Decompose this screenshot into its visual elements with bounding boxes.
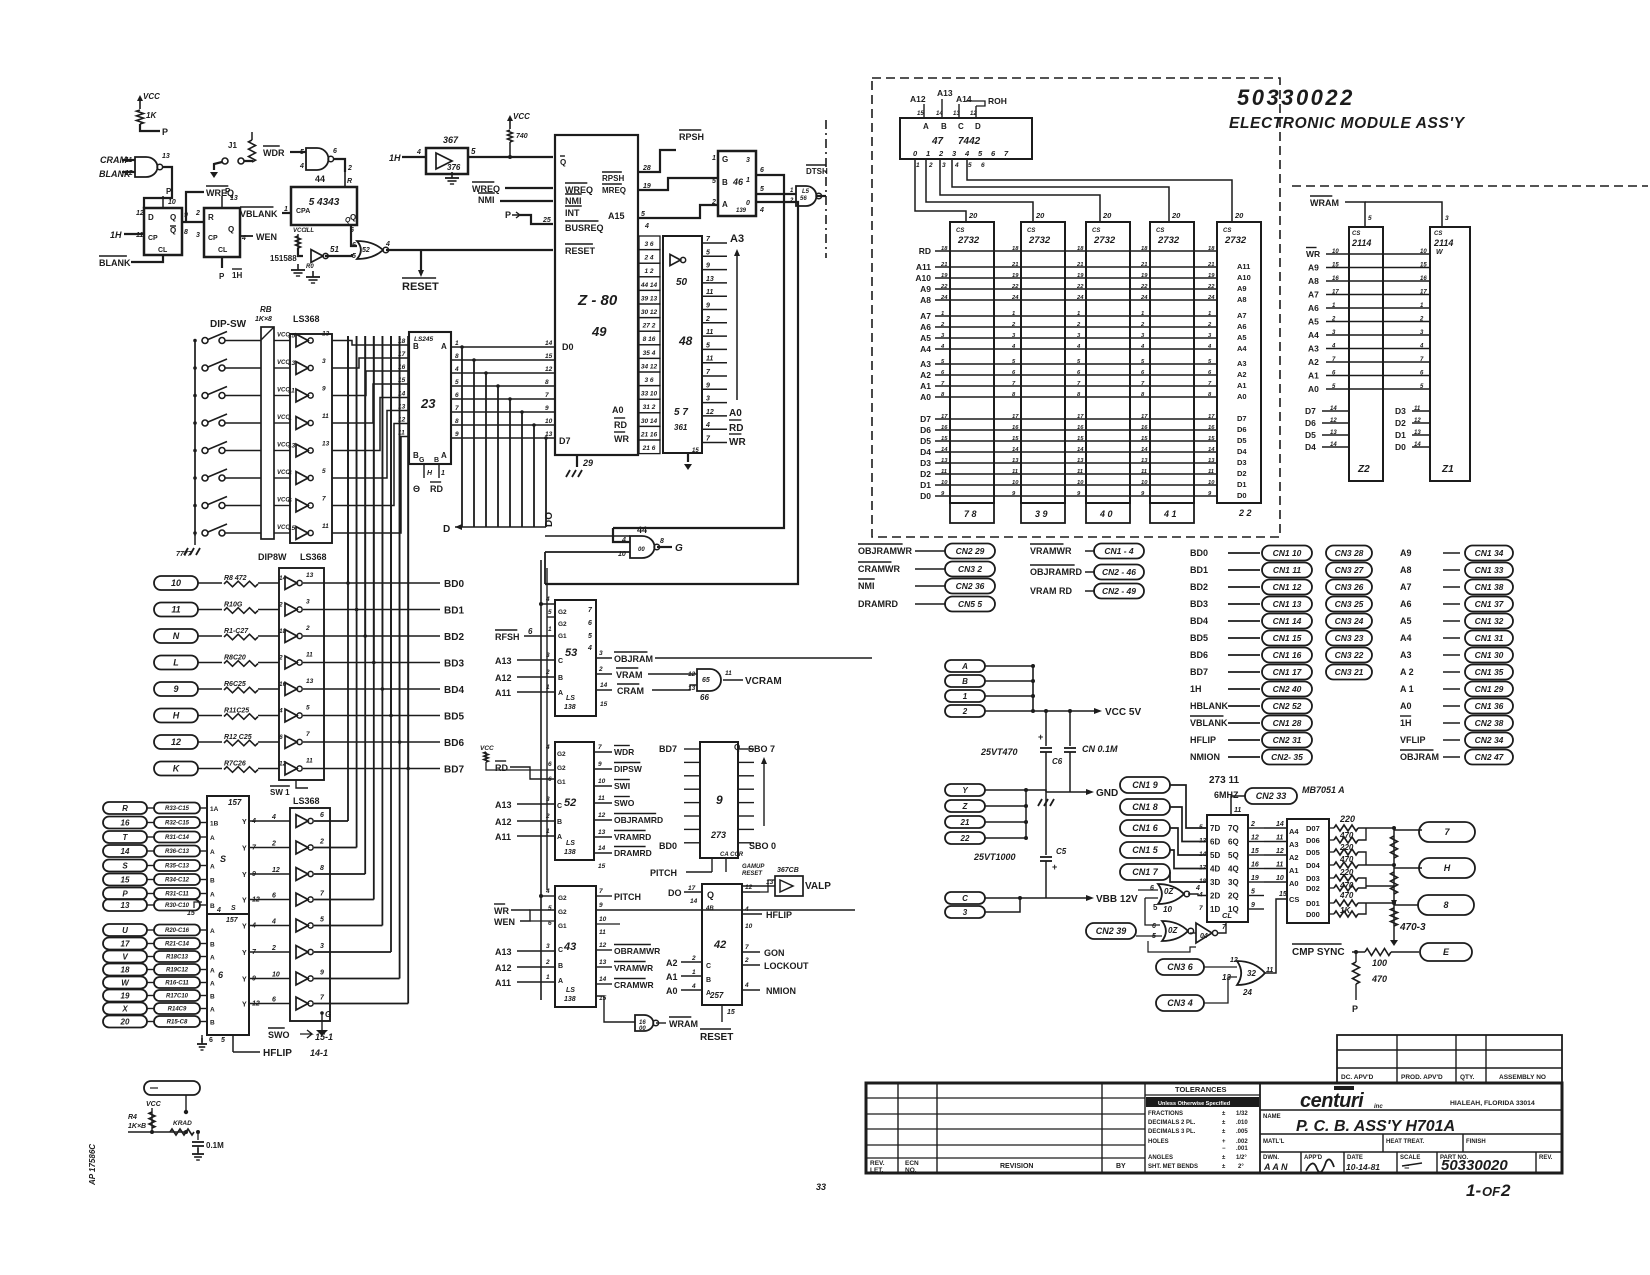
svg-text:CS: CS — [956, 228, 964, 234]
svg-text:11: 11 — [171, 605, 180, 615]
svg-text:VCC 5V: VCC 5V — [1105, 707, 1141, 718]
svg-text:1H: 1H — [1400, 718, 1412, 728]
inverter dip buf 2 — [296, 362, 308, 375]
svg-text:C: C — [558, 947, 563, 954]
wire objram right — [655, 657, 872, 659]
pad Y — [945, 784, 985, 796]
pad Z — [945, 800, 985, 812]
svg-text:−: − — [1222, 1146, 1226, 1152]
titleblock matl row — [1260, 1133, 1562, 1135]
svg-text:CN3 24: CN3 24 — [1335, 616, 1364, 626]
label VCRAM — [723, 679, 743, 681]
svg-text:2732: 2732 — [1093, 235, 1116, 246]
wire end stub — [184, 1130, 188, 1134]
svg-text:CN1 31: CN1 31 — [1475, 633, 1504, 643]
svg-text:12: 12 — [1276, 848, 1284, 855]
svg-text:138: 138 — [564, 849, 576, 856]
svg-text:CP: CP — [148, 235, 158, 242]
pad 22 — [945, 832, 985, 844]
svg-text:B: B — [210, 903, 215, 910]
svg-text:4: 4 — [287, 470, 292, 477]
svg-text:A1: A1 — [1237, 381, 1247, 390]
flip-flop U1 — [144, 208, 182, 255]
svg-text:VBB 12V: VBB 12V — [1096, 894, 1138, 905]
wire to BD4 — [303, 688, 440, 690]
svg-text:G1: G1 — [558, 633, 567, 640]
svg-text:1A: 1A — [210, 806, 219, 813]
svg-text:RESET: RESET — [700, 1032, 733, 1043]
svg-text:4: 4 — [454, 366, 459, 373]
svg-text:B: B — [962, 677, 968, 686]
wire junction x545 — [544, 552, 546, 584]
svg-text:D2: D2 — [920, 469, 931, 479]
svg-text:17: 17 — [1012, 414, 1019, 420]
svg-text:A7: A7 — [1400, 582, 1412, 592]
resistor R33-C15 — [154, 803, 200, 814]
wire — [314, 951, 391, 953]
wire 52 outputs with labels — [594, 751, 612, 753]
svg-text:G: G — [675, 543, 683, 554]
svg-text:16: 16 — [1141, 425, 1148, 431]
svg-text:1: 1 — [1208, 311, 1211, 317]
svg-text:5: 5 — [1368, 215, 1372, 222]
svg-text:BD6: BD6 — [444, 738, 464, 749]
svg-text:VRAMRD: VRAMRD — [614, 832, 651, 842]
svg-text:HFLIP: HFLIP — [766, 910, 792, 920]
wire sbo arrow — [763, 760, 765, 826]
svg-text:257: 257 — [709, 991, 724, 1000]
svg-text:25: 25 — [542, 217, 551, 224]
wire z80 to pincol — [638, 242, 639, 244]
svg-text:K: K — [173, 764, 181, 774]
svg-text:9: 9 — [322, 386, 326, 393]
svg-text:.001: .001 — [1236, 1146, 1248, 1152]
inverter BD buf 1 — [285, 577, 297, 590]
svg-text:3: 3 — [320, 943, 324, 950]
svg-text:CN3 23: CN3 23 — [1335, 633, 1364, 643]
inverter dip buf 5 — [296, 444, 308, 457]
svg-text:4: 4 — [545, 744, 550, 751]
wire 02a out — [1188, 894, 1207, 896]
svg-text:4: 4 — [385, 241, 390, 248]
svg-text:12: 12 — [279, 761, 287, 768]
svg-text:7: 7 — [598, 744, 602, 751]
svg-text:14: 14 — [121, 847, 130, 856]
svg-text:A15: A15 — [608, 211, 625, 221]
svg-text:9: 9 — [455, 431, 459, 438]
svg-text:VCC: VCC — [480, 745, 494, 752]
svg-text:3Q: 3Q — [1228, 878, 1239, 887]
svg-text:4: 4 — [644, 223, 649, 230]
svg-text:A12: A12 — [495, 673, 512, 683]
svg-text:D7: D7 — [920, 414, 931, 424]
svg-text:7442: 7442 — [958, 136, 981, 147]
svg-text:7: 7 — [545, 392, 549, 399]
svg-text:A0: A0 — [729, 408, 742, 419]
svg-text:Y: Y — [242, 872, 247, 879]
flip-flop U2 — [204, 208, 240, 257]
wire — [314, 978, 400, 980]
pad 1 — [945, 690, 985, 702]
svg-text:1: 1 — [441, 470, 445, 477]
svg-text:A: A — [722, 200, 728, 209]
svg-text:LS: LS — [566, 840, 575, 847]
ic U23 — [409, 332, 451, 464]
svg-text:LS368: LS368 — [300, 552, 327, 562]
connector pad 12 — [154, 735, 198, 749]
svg-text:CN2 38: CN2 38 — [1475, 718, 1504, 728]
svg-text:9: 9 — [173, 684, 178, 694]
svg-text:RD: RD — [495, 763, 508, 773]
svg-text:17: 17 — [941, 414, 948, 420]
wire 273 input stubs — [684, 748, 700, 750]
svg-text:12: 12 — [545, 366, 553, 373]
svg-text:HFLIP: HFLIP — [1190, 735, 1216, 745]
svg-text:4: 4 — [1419, 344, 1424, 350]
svg-text:A1: A1 — [1289, 866, 1299, 875]
resistor R34-C12 — [154, 874, 200, 885]
svg-text:RESET: RESET — [402, 281, 439, 293]
svg-text:3: 3 — [196, 232, 200, 239]
wire — [147, 1008, 154, 1010]
svg-text:R32-C15: R32-C15 — [165, 821, 190, 827]
buffer bank U-dip LS368 — [290, 334, 332, 543]
svg-text:G1: G1 — [558, 923, 567, 930]
svg-text:ILL: ILL — [305, 228, 314, 234]
flip-flop U2 preset — [221, 196, 223, 208]
svg-text:CN2- 35: CN2- 35 — [1271, 752, 1303, 762]
svg-text:8: 8 — [455, 353, 459, 360]
wire reg outputs — [1248, 827, 1264, 829]
svg-text:GND: GND — [1096, 788, 1118, 799]
svg-text:2°: 2° — [1238, 1164, 1244, 1170]
svg-text:A6: A6 — [1400, 599, 1412, 609]
eprom 2732 #3 — [1086, 222, 1130, 503]
svg-text:PITCH: PITCH — [614, 892, 641, 902]
wire 32 out — [1265, 899, 1287, 973]
svg-text:4: 4 — [1331, 344, 1336, 350]
svg-text:20: 20 — [968, 211, 978, 220]
svg-text:Y: Y — [242, 1002, 247, 1009]
svg-text:7: 7 — [1199, 905, 1203, 912]
svg-text:15: 15 — [1141, 436, 1148, 442]
svg-text:A1: A1 — [920, 381, 931, 391]
ic U46 decoder — [718, 151, 756, 216]
switch SW5 — [193, 449, 197, 453]
svg-text:4: 4 — [299, 163, 304, 170]
wire vcc5 rail — [1032, 666, 1034, 711]
wire 42 bottom reset — [721, 1005, 723, 1022]
svg-text:8: 8 — [660, 538, 664, 545]
svg-text:1K×B: 1K×B — [128, 1123, 146, 1130]
svg-text:NMI: NMI — [478, 195, 495, 205]
capacitor CN 0.1M — [1069, 711, 1071, 746]
wire to BD1 — [303, 609, 440, 611]
svg-text:15: 15 — [288, 333, 296, 340]
svg-text:21 16: 21 16 — [640, 431, 658, 438]
svg-text:CN2 34: CN2 34 — [1475, 735, 1504, 745]
svg-text:BLANK: BLANK — [99, 169, 132, 179]
svg-text:CN1 17: CN1 17 — [1273, 667, 1303, 677]
svg-text:A12: A12 — [910, 94, 926, 104]
svg-text:A: A — [558, 690, 563, 697]
svg-text:34 12: 34 12 — [641, 363, 658, 370]
svg-text:14: 14 — [1141, 447, 1148, 453]
svg-text:15: 15 — [1279, 891, 1287, 898]
svg-text:A: A — [558, 978, 563, 985]
svg-text:A7: A7 — [1308, 290, 1319, 300]
svg-text:13: 13 — [599, 959, 607, 966]
svg-text:BD3: BD3 — [444, 659, 464, 670]
svg-text:1: 1 — [746, 177, 750, 184]
svg-text:11: 11 — [1077, 469, 1083, 475]
svg-text:20: 20 — [1234, 211, 1244, 220]
svg-text:14: 14 — [941, 447, 948, 453]
svg-text:22: 22 — [940, 284, 948, 290]
svg-text:6: 6 — [320, 812, 324, 819]
svg-text:A0: A0 — [612, 405, 624, 415]
svg-text:DRAMRD: DRAMRD — [614, 848, 652, 858]
wire 46 out pin3 feeder — [613, 175, 784, 528]
ic U9 273 register — [700, 742, 738, 858]
svg-text:15: 15 — [1208, 436, 1215, 442]
svg-text:39 13: 39 13 — [641, 295, 658, 302]
svg-text:7: 7 — [706, 369, 711, 376]
svg-text:B: B — [434, 457, 439, 464]
svg-text:A6: A6 — [1308, 303, 1319, 313]
svg-text:13: 13 — [1077, 458, 1084, 464]
svg-text:BD2: BD2 — [1190, 582, 1208, 592]
svg-text:G: G — [722, 155, 728, 164]
connector pad 17 — [103, 938, 147, 950]
svg-text:BD2: BD2 — [444, 632, 464, 643]
svg-text:R11C25: R11C25 — [224, 708, 249, 715]
svg-text:A3: A3 — [920, 359, 931, 369]
svg-text:7D: 7D — [1210, 824, 1220, 833]
svg-text:20: 20 — [1035, 211, 1045, 220]
svg-text:11: 11 — [1012, 469, 1018, 475]
svg-text:GAMUP: GAMUP — [742, 864, 765, 870]
eprom 2732 #2 — [1021, 222, 1065, 503]
svg-text:15: 15 — [288, 525, 296, 532]
svg-text:4: 4 — [587, 645, 592, 652]
svg-text:B: B — [210, 942, 215, 949]
svg-text:.010: .010 — [1236, 1120, 1248, 1126]
svg-text:16: 16 — [941, 425, 948, 431]
svg-text:367CB: 367CB — [777, 867, 799, 874]
svg-text:25VT1000: 25VT1000 — [973, 852, 1016, 862]
svg-text:2: 2 — [545, 669, 550, 676]
wire 54343 R pin — [344, 172, 346, 187]
wire 51 to 52 — [325, 254, 352, 256]
svg-text:H: H — [427, 470, 433, 477]
svg-text:NMI: NMI — [858, 581, 875, 591]
svg-text:±: ± — [1222, 1129, 1226, 1135]
svg-text:46: 46 — [732, 177, 744, 187]
svg-text:SBO 7: SBO 7 — [748, 744, 775, 754]
svg-text:30 12: 30 12 — [641, 309, 658, 316]
svg-text:151588: 151588 — [270, 254, 297, 263]
svg-text:21: 21 — [1011, 262, 1018, 268]
svg-text:43: 43 — [563, 941, 576, 953]
svg-text:138: 138 — [564, 704, 576, 711]
svg-text:A9: A9 — [1400, 548, 1412, 558]
svg-text:R0: R0 — [306, 264, 314, 270]
svg-text:CP: CP — [208, 235, 218, 242]
svg-text:VRAMWR: VRAMWR — [1030, 546, 1072, 556]
connector pad 14 — [103, 845, 147, 857]
pad H — [1394, 867, 1422, 869]
svg-text:WR: WR — [1306, 249, 1320, 259]
svg-text:17: 17 — [121, 939, 130, 948]
svg-text:LOCKOUT: LOCKOUT — [764, 961, 809, 971]
svg-text:138: 138 — [564, 996, 576, 1003]
svg-text:10: 10 — [745, 923, 753, 930]
svg-text:HFLIP: HFLIP — [263, 1048, 292, 1059]
svg-text:Q: Q — [228, 225, 234, 234]
svg-text:15: 15 — [600, 701, 608, 708]
label WRAM — [656, 1022, 666, 1024]
svg-text:12: 12 — [706, 409, 714, 416]
svg-text:1/2°: 1/2° — [1236, 1155, 1247, 1161]
wire y rail — [1025, 790, 1027, 838]
svg-text:A: A — [706, 990, 711, 997]
svg-text:19: 19 — [121, 991, 130, 1000]
prom U12 MB7051 — [1287, 819, 1329, 923]
pad E — [1420, 943, 1472, 961]
svg-text:30 14: 30 14 — [641, 418, 658, 425]
svg-text:CN3 22: CN3 22 — [1335, 650, 1364, 660]
svg-text:P: P — [1352, 1004, 1358, 1014]
switch SW7 — [193, 504, 197, 508]
resistor R19C12 — [154, 964, 200, 975]
svg-text:10: 10 — [168, 199, 176, 206]
wire 42 to valp — [760, 880, 775, 892]
svg-text:5: 5 — [712, 178, 716, 185]
wire 23 bottom pins — [423, 464, 425, 478]
svg-text:DIPSW: DIPSW — [614, 764, 643, 774]
svg-text:D: D — [148, 213, 154, 222]
svg-text:50330022: 50330022 — [1237, 85, 1355, 110]
svg-text:A11: A11 — [916, 262, 931, 272]
svg-text:G2: G2 — [558, 909, 567, 916]
wire reset drop — [420, 250, 422, 272]
svg-text:INT: INT — [565, 208, 580, 218]
svg-text:1K: 1K — [146, 111, 157, 120]
svg-text:5: 5 — [455, 379, 459, 386]
wire wram to rams — [1345, 202, 1365, 227]
svg-text:centuri: centuri — [1300, 1090, 1364, 1112]
inverter BD buf 3 — [285, 630, 297, 643]
svg-text:DIP8W: DIP8W — [258, 552, 287, 562]
svg-text:CPA: CPA — [296, 208, 310, 215]
svg-text:1: 1 — [548, 626, 552, 633]
wire 46 to 56 input — [756, 193, 796, 195]
svg-text:CS: CS — [1092, 228, 1100, 234]
pad 8 — [1418, 895, 1474, 915]
svg-text:5: 5 — [968, 162, 972, 169]
svg-text:Y: Y — [242, 846, 247, 853]
wire — [147, 956, 154, 958]
svg-text:ECN: ECN — [905, 1160, 919, 1167]
svg-text:11: 11 — [288, 388, 295, 395]
svg-text:00: 00 — [638, 547, 645, 553]
svg-text:18: 18 — [1012, 246, 1019, 252]
svg-text:A10: A10 — [915, 273, 931, 283]
svg-text:D1: D1 — [1237, 480, 1247, 489]
svg-text:8: 8 — [1443, 900, 1448, 910]
connector pad X — [103, 1003, 147, 1015]
svg-text:11: 11 — [306, 652, 313, 659]
svg-text:0Z: 0Z — [1164, 887, 1174, 896]
svg-text:WEN: WEN — [256, 232, 277, 242]
svg-text:R: R — [208, 213, 214, 222]
svg-text:D7: D7 — [559, 436, 571, 446]
svg-text:A11: A11 — [495, 978, 511, 988]
svg-text:21: 21 — [1140, 262, 1147, 268]
connector pad N — [154, 629, 198, 643]
svg-text:21: 21 — [940, 262, 947, 268]
wire pad to resistor 1 — [198, 609, 222, 611]
wire 157 bottom hflip — [232, 1035, 234, 1052]
sram Z2 2114 — [1349, 227, 1383, 481]
svg-text:14: 14 — [1276, 821, 1284, 828]
svg-text:CN2 47: CN2 47 — [1475, 752, 1505, 762]
svg-text:BD0: BD0 — [659, 841, 677, 851]
svg-text:157: 157 — [228, 798, 242, 807]
svg-text:REVISION: REVISION — [1000, 1163, 1033, 1170]
svg-text:12: 12 — [1330, 418, 1337, 424]
svg-text:14: 14 — [690, 898, 698, 905]
svg-text:10: 10 — [1163, 905, 1172, 914]
svg-text:A: A — [210, 955, 215, 962]
svg-text:3 6: 3 6 — [644, 241, 653, 248]
wire vblank to 54343 — [282, 212, 291, 214]
svg-text:CS: CS — [1434, 231, 1442, 237]
svg-text:2: 2 — [938, 149, 944, 158]
wire cmp sync — [1352, 951, 1365, 953]
svg-text:10: 10 — [599, 916, 607, 923]
ground 470-3 — [1390, 940, 1398, 946]
and U66 vcram — [697, 669, 721, 691]
svg-text:16: 16 — [1251, 862, 1259, 869]
wire — [147, 904, 154, 906]
svg-text:19: 19 — [1141, 273, 1148, 279]
register U11 74273 — [1207, 815, 1248, 922]
svg-text:D4: D4 — [920, 447, 931, 457]
switch SW3 — [193, 394, 197, 398]
svg-text:13: 13 — [121, 901, 130, 910]
svg-text:L5: L5 — [802, 189, 810, 195]
connector pad W — [103, 977, 147, 989]
pad A — [945, 660, 985, 672]
pin column between z80 and 48 — [639, 236, 660, 250]
svg-text:0: 0 — [746, 200, 750, 207]
wire pad to resistor 4 — [198, 688, 222, 690]
svg-text:D0: D0 — [1395, 442, 1406, 452]
svg-text:1: 1 — [546, 974, 550, 981]
pad CN2 39 — [1086, 923, 1136, 939]
connector pad L — [154, 656, 198, 670]
svg-text:BD0: BD0 — [444, 579, 464, 590]
svg-text:2: 2 — [928, 162, 933, 169]
svg-text:2: 2 — [271, 841, 276, 848]
svg-text:1: 1 — [284, 206, 288, 213]
pad CN1 6 — [1120, 820, 1170, 836]
svg-text:33: 33 — [816, 1182, 826, 1192]
svg-text:7Q: 7Q — [1228, 824, 1239, 833]
connector pad H — [154, 709, 198, 723]
